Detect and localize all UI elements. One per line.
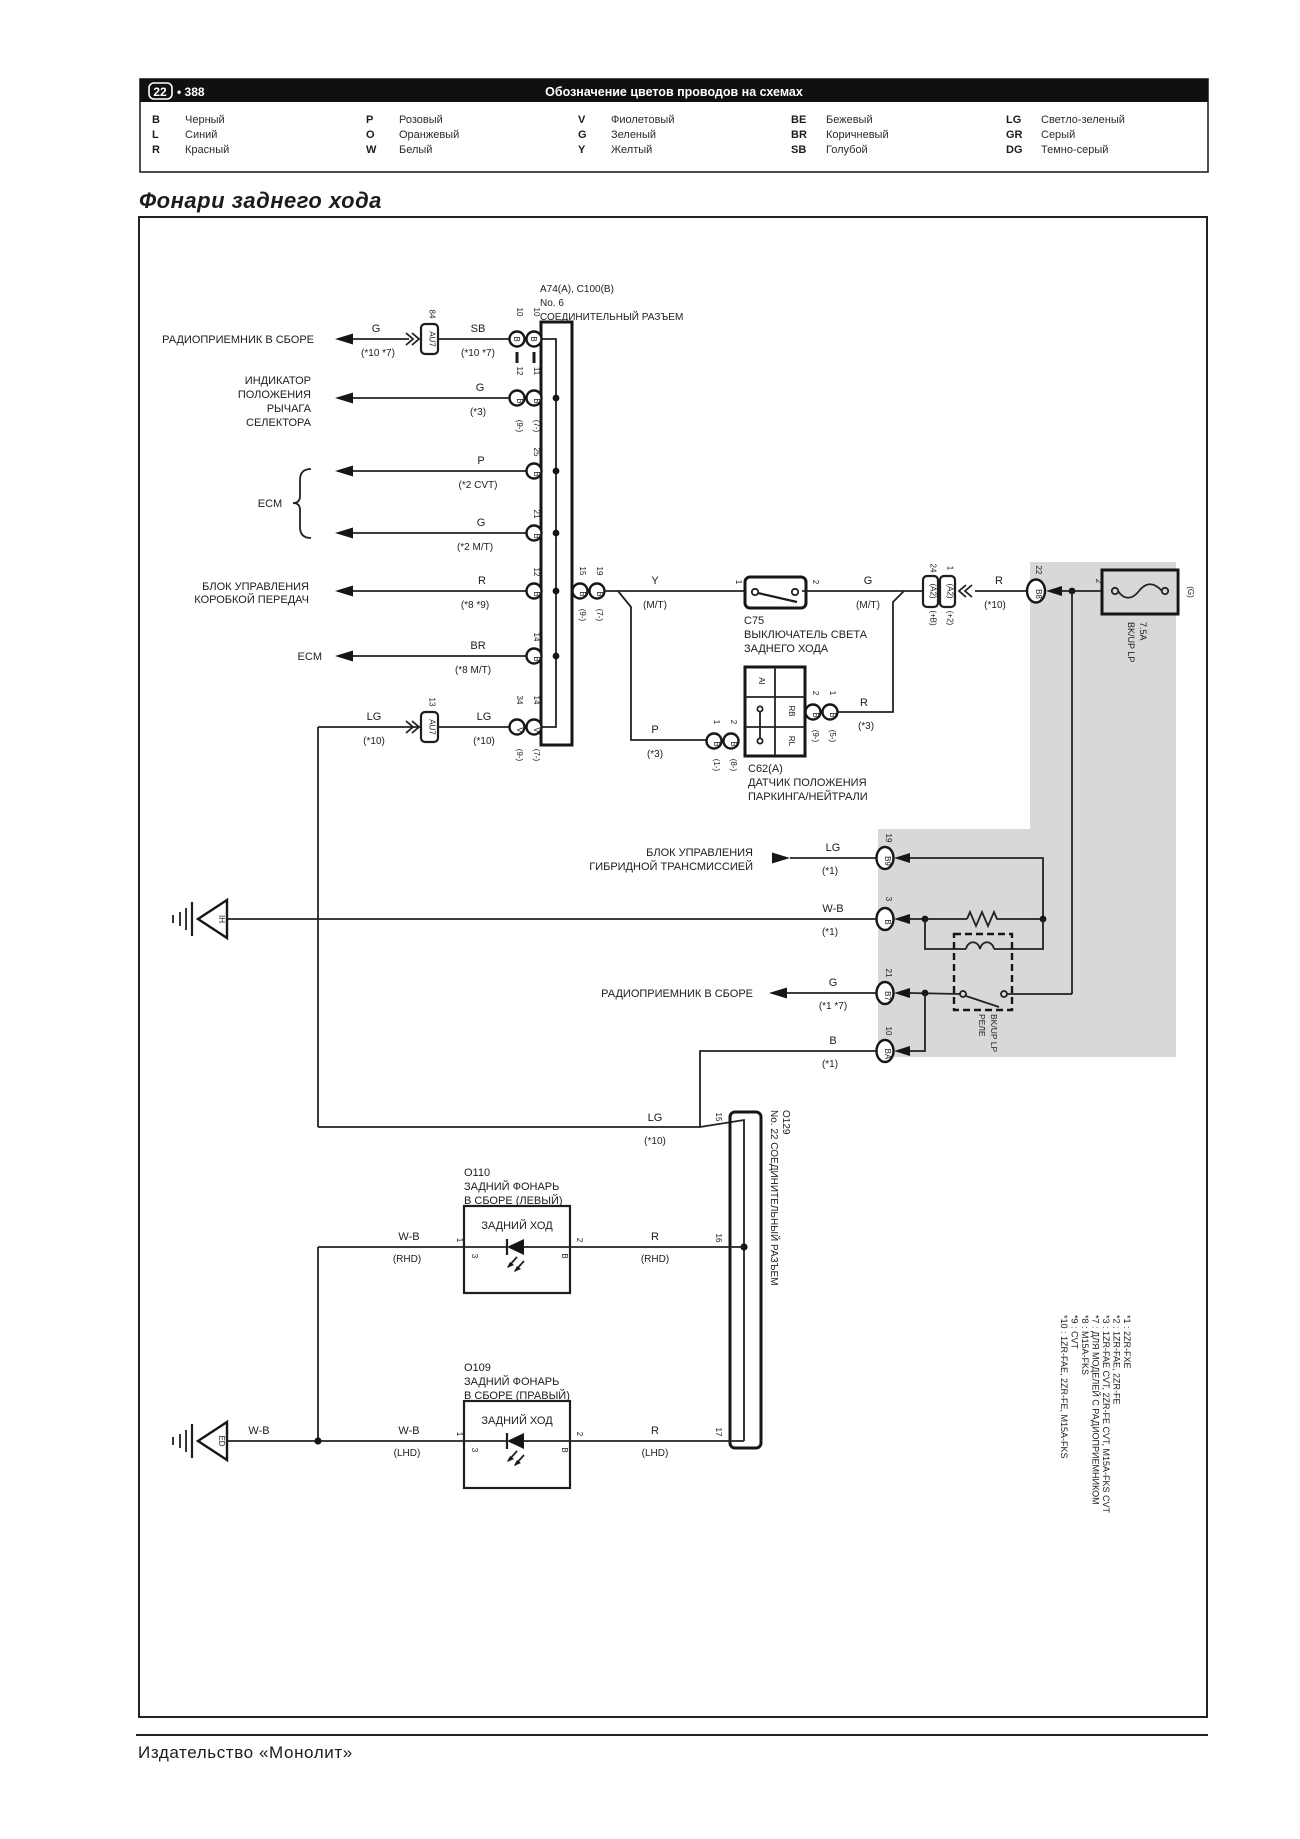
svg-text:ПОЛОЖЕНИЯ: ПОЛОЖЕНИЯ bbox=[238, 389, 311, 401]
wire W-B ground to lamp bbox=[227, 1425, 464, 1459]
svg-text:(*1): (*1) bbox=[822, 927, 838, 938]
svg-text:No. 22 СОЕДИНИТЕЛЬНЫЙ РАЗЪЕМ: No. 22 СОЕДИНИТЕЛЬНЫЙ РАЗЪЕМ bbox=[768, 1110, 781, 1286]
svg-text:ЗАДНЕГО ХОДА: ЗАДНЕГО ХОДА bbox=[744, 643, 829, 655]
svg-text:B: B bbox=[828, 712, 837, 717]
svg-text:(7-): (7-) bbox=[532, 749, 541, 762]
wire B *1 bbox=[700, 1035, 876, 1127]
svg-text:G: G bbox=[864, 575, 873, 587]
svg-text:No. 6: No. 6 bbox=[540, 298, 564, 309]
wire pin19 right and down bbox=[910, 858, 1043, 919]
pin pair row5 right side 15/19 bbox=[573, 567, 605, 622]
wire row2 selector indicator G bbox=[238, 375, 509, 429]
svg-text:(M/T): (M/T) bbox=[643, 600, 667, 611]
svg-text:(A2): (A2) bbox=[946, 583, 955, 598]
svg-text:AI: AI bbox=[757, 677, 766, 685]
svg-text:B: B bbox=[532, 656, 541, 661]
svg-text:РЫЧАГА: РЫЧАГА bbox=[267, 403, 312, 415]
svg-text:2: 2 bbox=[811, 580, 820, 585]
svg-text:17: 17 bbox=[714, 1428, 723, 1437]
wire row3 P CVT bbox=[335, 455, 541, 491]
svg-text:O: O bbox=[366, 129, 375, 141]
pin row3 bbox=[527, 448, 542, 479]
svg-text:B: B bbox=[883, 919, 892, 924]
svg-text:R: R bbox=[152, 144, 160, 156]
svg-text:(*3): (*3) bbox=[858, 721, 874, 732]
resistor bbox=[967, 912, 999, 926]
svg-text:AU7: AU7 bbox=[428, 331, 437, 347]
joint connector O129 bbox=[730, 1110, 791, 1448]
pin pair row2 bbox=[510, 367, 542, 433]
svg-text:Черный: Черный bbox=[185, 114, 225, 126]
wire row1 radio G/SB bbox=[162, 323, 509, 359]
svg-text:СОЕДИНИТЕЛЬНЫЙ РАЗЪЕМ: СОЕДИНИТЕЛЬНЫЙ РАЗЪЕМ bbox=[540, 310, 683, 323]
svg-text:ЗАДНИЙ ФОНАРЬ: ЗАДНИЙ ФОНАРЬ bbox=[464, 1375, 559, 1388]
svg-text:G: G bbox=[476, 382, 485, 394]
wire LG vertical left bbox=[317, 727, 319, 1127]
pin 19 ellipse bbox=[877, 834, 894, 869]
svg-text:*8 : M15A-FKS: *8 : M15A-FKS bbox=[1080, 1315, 1090, 1375]
svg-text:21: 21 bbox=[532, 510, 541, 519]
arrow into pin 3 bbox=[894, 914, 910, 924]
wire fuse junction down to relay bbox=[1071, 591, 1073, 994]
pin pair row1 bbox=[510, 308, 542, 363]
svg-text:(*2 CVT): (*2 CVT) bbox=[459, 480, 498, 491]
svg-text:БЛОК УПРАВЛЕНИЯ: БЛОК УПРАВЛЕНИЯ bbox=[646, 847, 753, 859]
svg-text:*2 : 1ZR-FAE, 2ZR-FE: *2 : 1ZR-FAE, 2ZR-FE bbox=[1112, 1315, 1122, 1405]
svg-text:(*1 *7): (*1 *7) bbox=[819, 1001, 847, 1012]
wire R *10 to fuse pin bbox=[975, 575, 1027, 611]
svg-text:Красный: Красный bbox=[185, 144, 229, 156]
svg-text:1: 1 bbox=[455, 1432, 464, 1437]
inline connector pair 24/1 (A2) bbox=[923, 564, 972, 626]
svg-text:(*10): (*10) bbox=[363, 736, 385, 747]
wire R LHD bbox=[570, 1425, 744, 1459]
pin row6 bbox=[527, 633, 542, 664]
svg-text:(*10): (*10) bbox=[644, 1136, 666, 1147]
svg-text:ED: ED bbox=[217, 1435, 226, 1446]
svg-text:2: 2 bbox=[575, 1238, 584, 1243]
svg-text:(M/T): (M/T) bbox=[856, 600, 880, 611]
svg-text:22: 22 bbox=[1034, 566, 1043, 575]
wire row4 G MT bbox=[335, 517, 541, 553]
svg-text:(*1): (*1) bbox=[822, 866, 838, 877]
inline connector AU7 row1 bbox=[421, 310, 438, 354]
svg-text:• 388: • 388 bbox=[177, 85, 205, 99]
svg-text:ИНДИКАТОР: ИНДИКАТОР bbox=[245, 375, 311, 387]
svg-text:10: 10 bbox=[532, 308, 541, 317]
svg-text:R: R bbox=[995, 575, 1003, 587]
svg-text:SB: SB bbox=[471, 323, 486, 335]
wire G M/T switch to A2 connector bbox=[802, 575, 923, 611]
wire W-B vertical link bbox=[317, 1247, 319, 1441]
arrow into pin 19 bbox=[894, 853, 910, 863]
svg-text:1: 1 bbox=[455, 1238, 464, 1243]
svg-text:Зеленый: Зеленый bbox=[611, 129, 656, 141]
node pin16 junction bbox=[740, 1243, 747, 1250]
svg-text:C75: C75 bbox=[744, 615, 764, 627]
svg-text:W: W bbox=[366, 144, 377, 156]
svg-text:Желтый: Желтый bbox=[611, 144, 652, 156]
svg-text:W-B: W-B bbox=[398, 1425, 419, 1437]
node row2 bus junction bbox=[553, 395, 560, 402]
svg-text:1: 1 bbox=[734, 580, 743, 585]
ground G1 bbox=[173, 900, 227, 938]
svg-text:L: L bbox=[152, 129, 159, 141]
svg-text:10: 10 bbox=[884, 1027, 893, 1036]
svg-text:IH: IH bbox=[217, 915, 226, 923]
svg-text:(9-): (9-) bbox=[515, 420, 524, 433]
svg-text:Коричневый: Коричневый bbox=[826, 129, 889, 141]
svg-text:Бежевый: Бежевый bbox=[826, 114, 873, 126]
footer rule bbox=[136, 1734, 1208, 1736]
svg-text:BR: BR bbox=[791, 129, 807, 141]
svg-text:13: 13 bbox=[428, 698, 437, 707]
svg-text:P: P bbox=[477, 455, 484, 467]
fuse 7.5A BK/UP LP bbox=[1094, 570, 1195, 662]
svg-text:R: R bbox=[651, 1425, 659, 1437]
svg-text:14: 14 bbox=[532, 633, 541, 642]
svg-text:2: 2 bbox=[575, 1432, 584, 1437]
svg-text:G: G bbox=[829, 977, 838, 989]
svg-text:2: 2 bbox=[1094, 579, 1103, 584]
legend color table bbox=[152, 114, 1125, 156]
svg-text:B: B bbox=[560, 1253, 569, 1258]
svg-text:10: 10 bbox=[515, 308, 524, 317]
wire relay coil loop bbox=[925, 919, 966, 949]
svg-text:AU7: AU7 bbox=[428, 719, 437, 735]
svg-text:(9-): (9-) bbox=[578, 609, 587, 622]
svg-text:(*10): (*10) bbox=[473, 736, 495, 747]
rear lamp O109 right bbox=[455, 1362, 584, 1488]
svg-text:R: R bbox=[478, 575, 486, 587]
svg-text:34: 34 bbox=[515, 696, 524, 705]
svg-text:КОРОБКОЙ ПЕРЕДАЧ: КОРОБКОЙ ПЕРЕДАЧ bbox=[194, 593, 309, 606]
svg-text:БЛОК УПРАВЛЕНИЯ: БЛОК УПРАВЛЕНИЯ bbox=[202, 581, 309, 593]
switch C75 back-up light switch bbox=[734, 577, 868, 655]
svg-text:LG: LG bbox=[367, 711, 382, 723]
svg-text:Розовый: Розовый bbox=[399, 114, 443, 126]
wire R RHD bbox=[570, 1231, 744, 1265]
svg-text:(LHD): (LHD) bbox=[642, 1448, 669, 1459]
svg-text:G: G bbox=[372, 323, 381, 335]
svg-text:(*10 *7): (*10 *7) bbox=[461, 348, 495, 359]
svg-text:(*3): (*3) bbox=[647, 749, 663, 760]
wire row5 transmission control R bbox=[194, 575, 541, 611]
svg-text:(7-): (7-) bbox=[532, 420, 541, 433]
svg-text:ECM: ECM bbox=[298, 651, 322, 663]
wire row6 ECM BR bbox=[298, 640, 541, 676]
svg-text:Синий: Синий bbox=[185, 129, 217, 141]
wire junction down to B row bbox=[910, 993, 925, 1051]
wire LG *10 to joint connector O129 bbox=[318, 1112, 744, 1441]
svg-text:B: B bbox=[578, 591, 587, 596]
pin pair row7 bbox=[510, 696, 542, 762]
svg-text:ПАРКИНГА/НЕЙТРАЛИ: ПАРКИНГА/НЕЙТРАЛИ bbox=[748, 790, 868, 803]
svg-text:Светло-зеленый: Светло-зеленый bbox=[1041, 114, 1125, 126]
svg-text:Серый: Серый bbox=[1041, 129, 1075, 141]
svg-text:B: B bbox=[515, 398, 524, 403]
shaded option area upper bbox=[1030, 562, 1176, 829]
svg-text:3: 3 bbox=[470, 1254, 479, 1259]
svg-text:Темно-серый: Темно-серый bbox=[1041, 144, 1108, 156]
svg-text:(*3): (*3) bbox=[470, 407, 486, 418]
relay coil bbox=[966, 942, 994, 949]
svg-text:16: 16 bbox=[714, 1234, 723, 1243]
svg-text:*1 : 2ZR-FXE: *1 : 2ZR-FXE bbox=[1122, 1315, 1132, 1369]
svg-text:ECM: ECM bbox=[258, 498, 282, 510]
node pin21 junction bbox=[922, 990, 929, 997]
svg-text:Обозначение цветов проводов на: Обозначение цветов проводов на схемах bbox=[545, 85, 803, 99]
svg-text:O109: O109 bbox=[464, 1362, 491, 1374]
node fuse junction bbox=[1069, 588, 1076, 595]
svg-text:GR: GR bbox=[1006, 129, 1023, 141]
svg-text:B: B bbox=[811, 712, 820, 717]
svg-text:G: G bbox=[578, 129, 587, 141]
wire W-B RHD bbox=[318, 1231, 464, 1265]
svg-text:*7 : ДЛЯ МОДЕЛЕЙ С РАДИОПРИЕМН: *7 : ДЛЯ МОДЕЛЕЙ С РАДИОПРИЕМНИКОМ bbox=[1091, 1315, 1102, 1505]
node row4 bus junction bbox=[553, 530, 560, 537]
svg-text:(5-): (5-) bbox=[828, 730, 837, 743]
wire coil right to bus bbox=[994, 919, 1043, 949]
pin row5 left bbox=[527, 568, 542, 599]
wire R *3 from sensor to G line bbox=[838, 591, 904, 732]
svg-text:ЗАДНИЙ ФОНАРЬ: ЗАДНИЙ ФОНАРЬ bbox=[464, 1180, 559, 1193]
pin 21 ellipse bbox=[877, 969, 894, 1004]
relay contact bbox=[960, 991, 1007, 1007]
svg-text:B: B bbox=[152, 114, 160, 126]
svg-text:SB: SB bbox=[791, 144, 806, 156]
arrow into pin 10 bbox=[894, 1046, 910, 1056]
svg-text:7.5A: 7.5A bbox=[1138, 622, 1148, 641]
wire hybrid control LG *1 bbox=[589, 842, 876, 877]
footnotes rotated bbox=[1059, 1315, 1132, 1514]
svg-text:ЗАДНИЙ ХОД: ЗАДНИЙ ХОД bbox=[481, 1219, 553, 1232]
svg-text:B: B bbox=[712, 741, 721, 746]
svg-text:(*8 *9): (*8 *9) bbox=[461, 600, 489, 611]
svg-text:(+2): (+2) bbox=[946, 611, 955, 626]
svg-text:(*1): (*1) bbox=[822, 1059, 838, 1070]
svg-text:V: V bbox=[532, 727, 541, 733]
svg-text:2: 2 bbox=[811, 691, 820, 696]
parking/neutral position sensor C62(A) bbox=[745, 667, 868, 803]
svg-text:15: 15 bbox=[578, 567, 587, 576]
svg-text:Фиолетовый: Фиолетовый bbox=[611, 114, 674, 126]
arrow into pin 21 bbox=[894, 988, 910, 998]
node row5 bus junction bbox=[553, 588, 560, 595]
svg-text:(*10): (*10) bbox=[984, 600, 1006, 611]
svg-text:Y: Y bbox=[578, 144, 586, 156]
svg-text:RB: RB bbox=[787, 705, 796, 716]
svg-text:V: V bbox=[578, 114, 586, 126]
svg-text:Оранжевый: Оранжевый bbox=[399, 129, 459, 141]
svg-text:W-B: W-B bbox=[398, 1231, 419, 1243]
node resistor left junction bbox=[922, 916, 929, 923]
joint connector internal bus wire bbox=[541, 339, 556, 727]
svg-text:3: 3 bbox=[884, 897, 893, 902]
wire branch P *3 riser bbox=[618, 591, 706, 760]
svg-text:O129: O129 bbox=[780, 1110, 791, 1135]
svg-text:Издательство «Монолит»: Издательство «Монолит» bbox=[138, 1743, 353, 1762]
inline connector AU7 row7 bbox=[421, 698, 438, 742]
svg-text:84: 84 bbox=[428, 310, 437, 319]
svg-text:*10 : 1ZR-FAE, 2ZR-FE, M15A-FK: *10 : 1ZR-FAE, 2ZR-FE, M15A-FKS bbox=[1059, 1315, 1069, 1459]
wire Y M/T to switch bbox=[605, 575, 745, 611]
svg-text:R: R bbox=[860, 697, 868, 709]
svg-text:G: G bbox=[477, 517, 486, 529]
svg-text:1: 1 bbox=[712, 720, 721, 725]
svg-text:BE: BE bbox=[791, 114, 806, 126]
svg-text:B: B bbox=[529, 336, 538, 341]
svg-text:11: 11 bbox=[532, 367, 541, 376]
svg-text:19: 19 bbox=[595, 567, 604, 576]
pin 3 ellipse bbox=[877, 897, 894, 930]
svg-text:RL: RL bbox=[787, 736, 796, 747]
svg-text:B: B bbox=[512, 336, 521, 341]
svg-text:B: B bbox=[729, 741, 738, 746]
svg-text:14: 14 bbox=[532, 696, 541, 705]
ground G2 bbox=[173, 1422, 227, 1460]
svg-text:Голубой: Голубой bbox=[826, 144, 868, 156]
svg-text:B: B bbox=[829, 1035, 836, 1047]
svg-text:(*2 M/T): (*2 M/T) bbox=[457, 542, 493, 553]
svg-text:B8: B8 bbox=[1034, 589, 1043, 599]
svg-text:B: B bbox=[532, 398, 541, 403]
svg-text:BR: BR bbox=[470, 640, 485, 652]
svg-text:2: 2 bbox=[729, 720, 738, 725]
wire pin22 to fuse bbox=[1062, 590, 1102, 592]
svg-text:P: P bbox=[366, 114, 373, 126]
svg-text:(*10 *7): (*10 *7) bbox=[361, 348, 395, 359]
svg-text:B: B bbox=[532, 591, 541, 596]
svg-text:B: B bbox=[595, 591, 604, 596]
svg-text:19: 19 bbox=[884, 834, 893, 843]
svg-text:(G): (G) bbox=[1186, 586, 1195, 598]
svg-text:(7-): (7-) bbox=[595, 609, 604, 622]
svg-text:12: 12 bbox=[532, 568, 541, 577]
pin pair C62 right bbox=[806, 691, 838, 743]
svg-text:ДАТЧИК ПОЛОЖЕНИЯ: ДАТЧИК ПОЛОЖЕНИЯ bbox=[748, 777, 867, 789]
svg-text:25: 25 bbox=[532, 448, 541, 457]
svg-text:(8-): (8-) bbox=[729, 759, 738, 772]
svg-text:22: 22 bbox=[153, 85, 167, 99]
svg-text:(9-): (9-) bbox=[515, 749, 524, 762]
svg-text:LG: LG bbox=[477, 711, 492, 723]
wire relay to fuse riser bbox=[1007, 993, 1072, 995]
svg-text:R: R bbox=[651, 1231, 659, 1243]
svg-text:1: 1 bbox=[828, 691, 837, 696]
node row3 bus junction bbox=[553, 468, 560, 475]
joint connector A74(A) C100(B) bbox=[540, 284, 683, 745]
svg-text:Y: Y bbox=[651, 575, 659, 587]
svg-text:BA: BA bbox=[883, 1049, 892, 1060]
svg-text:(9-): (9-) bbox=[811, 730, 820, 743]
svg-text:ЗАДНИЙ ХОД: ЗАДНИЙ ХОД bbox=[481, 1414, 553, 1427]
svg-text:P: P bbox=[651, 724, 658, 736]
svg-text:1: 1 bbox=[946, 566, 955, 571]
arrow into pin 22 bbox=[1046, 586, 1062, 596]
svg-text:24: 24 bbox=[929, 564, 938, 573]
svg-text:W-B: W-B bbox=[248, 1425, 269, 1437]
svg-text:(LHD): (LHD) bbox=[394, 1448, 421, 1459]
node resistor right junction bbox=[1040, 916, 1047, 923]
pin pair C62 left bbox=[707, 720, 739, 772]
wire resistor right to bus bbox=[999, 918, 1043, 920]
svg-text:Фонари заднего хода: Фонари заднего хода bbox=[139, 188, 382, 213]
svg-text:(+B): (+B) bbox=[929, 610, 938, 626]
ECM brace rows 3-4 bbox=[258, 469, 311, 538]
wire radio G *1 *7 bbox=[601, 977, 876, 1012]
wire pin21 to relay contact bbox=[910, 993, 960, 994]
svg-text:(A2): (A2) bbox=[929, 583, 938, 598]
node row6 bus junction bbox=[553, 653, 560, 660]
svg-text:LG: LG bbox=[1006, 114, 1021, 126]
svg-text:Белый: Белый bbox=[399, 144, 432, 156]
svg-text:(1-): (1-) bbox=[712, 759, 721, 772]
svg-text:СЕЛЕКТОРА: СЕЛЕКТОРА bbox=[246, 417, 312, 429]
svg-text:РАДИОПРИЕМНИК В СБОРЕ: РАДИОПРИЕМНИК В СБОРЕ bbox=[162, 334, 314, 346]
svg-text:LG: LG bbox=[826, 842, 841, 854]
svg-text:LG: LG bbox=[648, 1112, 663, 1124]
svg-text:DG: DG bbox=[1006, 144, 1023, 156]
node ground junction bbox=[314, 1437, 321, 1444]
svg-text:BK/UP LP: BK/UP LP bbox=[1126, 622, 1136, 662]
svg-text:C62(A): C62(A) bbox=[748, 763, 783, 775]
svg-text:O110: O110 bbox=[464, 1167, 490, 1179]
relay BK/UP LP dashed body bbox=[954, 934, 1012, 1052]
pin 10 ellipse bbox=[877, 1027, 894, 1062]
svg-text:B7: B7 bbox=[883, 991, 892, 1001]
legend header bar bbox=[140, 79, 1208, 172]
svg-text:3: 3 bbox=[470, 1448, 479, 1453]
shaded option area lower bbox=[878, 829, 1176, 1057]
diagram frame bbox=[139, 217, 1207, 1717]
svg-text:B: B bbox=[532, 471, 541, 476]
svg-text:W-B: W-B bbox=[822, 903, 843, 915]
svg-text:РЕЛЕ: РЕЛЕ bbox=[977, 1014, 987, 1037]
svg-text:ВЫКЛЮЧАТЕЛЬ СВЕТА: ВЫКЛЮЧАТЕЛЬ СВЕТА bbox=[744, 629, 868, 641]
svg-text:BK/UP LP: BK/UP LP bbox=[989, 1014, 999, 1052]
svg-text:B: B bbox=[532, 533, 541, 538]
svg-text:(*8 M/T): (*8 M/T) bbox=[455, 665, 491, 676]
pin 22 ellipse bbox=[1027, 566, 1045, 603]
svg-text:*3 : 1ZR-FAE CVT, 2ZR-FE CVT,: *3 : 1ZR-FAE CVT, 2ZR-FE CVT, M15A-FKS C… bbox=[1101, 1315, 1111, 1514]
pin row4 bbox=[527, 510, 542, 541]
wire W-B *1 ground run bbox=[227, 903, 876, 938]
svg-text:12: 12 bbox=[515, 367, 524, 376]
rear lamp O110 left bbox=[455, 1167, 584, 1293]
svg-text:V: V bbox=[515, 727, 524, 733]
svg-text:*9 : CVT: *9 : CVT bbox=[1070, 1315, 1080, 1350]
svg-text:(RHD): (RHD) bbox=[641, 1254, 669, 1265]
wire pin3 to resistor bbox=[910, 918, 967, 920]
svg-text:A74(A), C100(B): A74(A), C100(B) bbox=[540, 284, 614, 295]
svg-text:B: B bbox=[560, 1447, 569, 1452]
svg-text:15: 15 bbox=[714, 1113, 723, 1122]
svg-text:(RHD): (RHD) bbox=[393, 1254, 421, 1265]
svg-text:21: 21 bbox=[884, 969, 893, 978]
svg-text:B9: B9 bbox=[883, 856, 892, 866]
svg-text:ГИБРИДНОЙ ТРАНСМИССИЕЙ: ГИБРИДНОЙ ТРАНСМИССИЕЙ bbox=[589, 860, 753, 873]
svg-text:РАДИОПРИЕМНИК В СБОРЕ: РАДИОПРИЕМНИК В СБОРЕ bbox=[601, 988, 753, 1000]
wire row7 LG loop bbox=[318, 711, 509, 747]
